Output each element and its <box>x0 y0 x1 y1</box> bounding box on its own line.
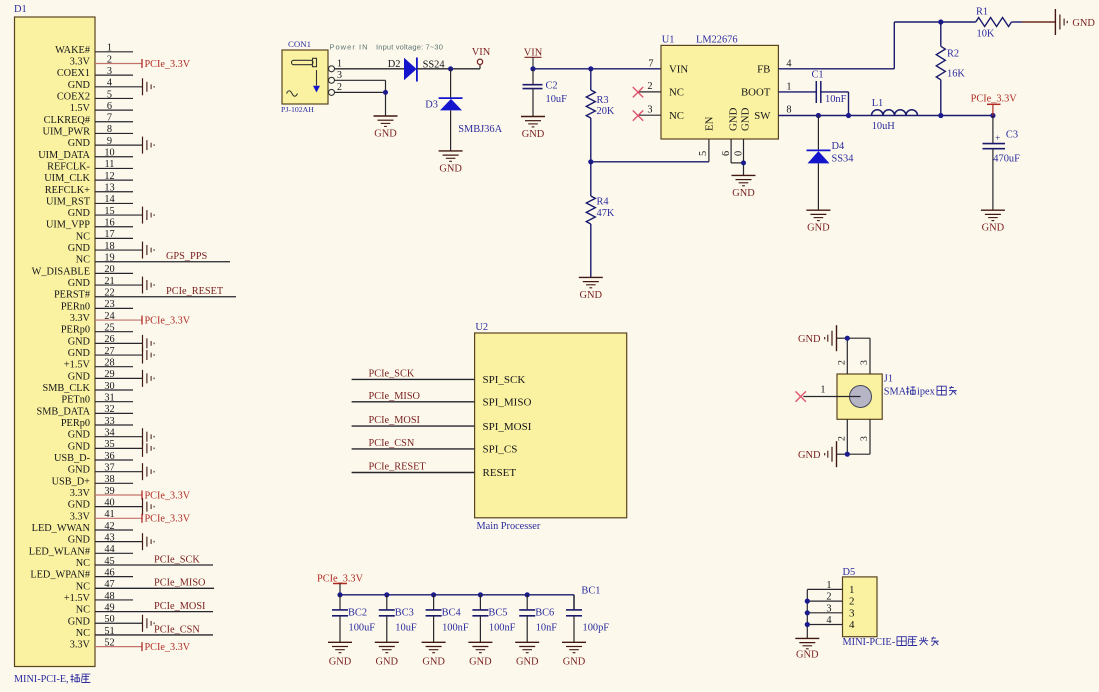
capacitor BC3 value 10uF <box>395 622 417 633</box>
svg-text:GND: GND <box>732 188 755 199</box>
pin 1 (WAKE#) of connector D1 <box>55 43 133 56</box>
net label PCIe_SCK <box>369 368 415 379</box>
U1 pin GND label (rotated, pin6) <box>728 107 740 131</box>
resistor R1 value 10K <box>977 28 995 39</box>
capacitor BC5 <box>472 595 488 643</box>
svg-text:470uF: 470uF <box>993 153 1020 164</box>
capacitor BC3 designator <box>395 607 414 618</box>
svg-text:GND: GND <box>469 656 492 667</box>
svg-text:REFCLK+: REFCLK+ <box>45 185 90 196</box>
svg-text:3: 3 <box>647 105 652 116</box>
svg-text:PCIe_MOSI: PCIe_MOSI <box>369 415 421 426</box>
svg-text:BC6: BC6 <box>535 607 554 618</box>
svg-text:U2: U2 <box>475 322 488 333</box>
capacitor C1 designator <box>812 70 824 81</box>
regulator U1 designator <box>662 35 675 46</box>
svg-text:SPI_SCK: SPI_SCK <box>483 374 526 386</box>
svg-text:NC: NC <box>76 558 90 569</box>
regulator U1 body <box>661 45 778 139</box>
pin 26 (GND) of connector D1 <box>68 334 143 347</box>
svg-text:VIN: VIN <box>669 63 688 75</box>
pin 51 (NC) of connector D1 <box>76 626 213 639</box>
J1 top pin 3 <box>859 338 870 374</box>
pin 30 (SMB_CLK) of connector D1 <box>43 381 134 394</box>
svg-text:5: 5 <box>698 151 709 156</box>
pin 33 (PERp0) of connector D1 <box>61 416 133 429</box>
power port PCIe_3.3V (bypass rail) <box>317 573 364 595</box>
svg-text:GND: GND <box>68 243 91 254</box>
svg-text:RESET: RESET <box>483 467 517 479</box>
svg-text:NC: NC <box>76 255 90 266</box>
svg-text:GND: GND <box>376 656 399 667</box>
U1 pin 6 number (rotated) <box>721 151 732 156</box>
svg-text:1: 1 <box>820 384 825 395</box>
pin 46 (LED_WPAN#) of connector D1 <box>30 567 133 580</box>
svg-text:WAKE#: WAKE# <box>55 45 90 56</box>
connector J1 designator <box>884 374 893 385</box>
diode D4 value SS34 <box>832 153 855 164</box>
junction D5 bus <box>805 622 810 627</box>
svg-text:UIM_CLK: UIM_CLK <box>44 173 90 184</box>
U1 pin FB label <box>757 58 791 75</box>
pin 19 (NC) of connector D1 <box>76 253 230 266</box>
capacitor BC6 <box>519 595 535 643</box>
pin 44 (LED_WLAN#) of connector D1 <box>29 544 133 557</box>
connector D1 caption MINI-PCI-E socket <box>14 674 90 685</box>
CON1 pin 2 circle <box>329 82 343 96</box>
pin 36 (USB_D-) of connector D1 <box>54 451 133 464</box>
pin 7 (CLKREQ#) of connector D1 <box>44 113 133 126</box>
svg-text:GPS_PPS: GPS_PPS <box>166 251 207 262</box>
diode D2 value SS24 <box>423 59 446 70</box>
wire PCIe_RESET to U2 <box>352 472 475 474</box>
pin 2 (3.3V) of connector D1 <box>70 54 142 67</box>
svg-text:BC5: BC5 <box>488 607 507 618</box>
svg-text:UIM_RST: UIM_RST <box>46 196 91 207</box>
svg-text:PJ-102AH: PJ-102AH <box>281 105 314 114</box>
svg-text:SW: SW <box>754 110 771 122</box>
svg-text:SMA: SMA <box>884 387 907 398</box>
pin 21 (GND) of connector D1 <box>68 276 143 289</box>
inductor L1 designator <box>872 98 884 109</box>
svg-text:LED_WWAN: LED_WWAN <box>32 523 91 534</box>
net label PCIe_SCK (D1 pin 45) <box>154 554 200 565</box>
capacitor BC5 designator <box>488 607 507 618</box>
svg-text:10uF: 10uF <box>395 622 417 633</box>
svg-text:100nF: 100nF <box>442 622 469 633</box>
power port PCIe_3.3V (D1 pin 39) <box>142 490 191 501</box>
junction at C2 <box>530 66 535 71</box>
pin 37 (GND) of connector D1 <box>68 462 143 475</box>
svg-text:GND: GND <box>522 129 545 140</box>
svg-text:GND: GND <box>68 500 91 511</box>
J1 top pin 2 <box>837 338 848 374</box>
annotation Power IN <box>329 43 368 52</box>
svg-text:W_DISABLE: W_DISABLE <box>32 266 90 277</box>
junction rail at BC4 <box>431 592 436 597</box>
svg-text:1: 1 <box>849 584 855 596</box>
pin 11 (REFCLK-) of connector D1 <box>47 159 133 172</box>
J1 bottom pin 2 <box>837 419 848 454</box>
D5 pin 2 <box>807 592 854 608</box>
ground (D1 pin 15) <box>143 207 155 224</box>
svg-text:UIM_DATA: UIM_DATA <box>38 150 90 161</box>
pin 40 (GND) of connector D1 <box>68 497 143 510</box>
U1 pin VIN label <box>669 63 688 75</box>
power port PCIe_3.3V (D1 pin 24) <box>142 315 191 326</box>
U1 pin NC (3) <box>637 105 684 122</box>
pin 50 (GND) of connector D1 <box>68 614 143 627</box>
CON1 pin 1 circle <box>329 58 343 72</box>
diode D2 designator <box>388 59 401 70</box>
pin 8 (UIM_PWR) of connector D1 <box>43 124 133 137</box>
svg-text:PERp0: PERp0 <box>61 418 90 429</box>
ground (CON1) <box>374 116 398 140</box>
svg-text:+1.5V: +1.5V <box>64 360 91 371</box>
pin 20 (W_DISABLE) of connector D1 <box>32 264 133 277</box>
svg-text:GND: GND <box>68 371 91 382</box>
svg-text:0: 0 <box>734 151 745 156</box>
svg-text:GND: GND <box>68 616 91 627</box>
svg-text:SPI_MOSI: SPI_MOSI <box>483 421 532 433</box>
wire PCIe_CSN to U2 <box>352 448 475 450</box>
svg-text:USB_D-: USB_D- <box>54 453 91 464</box>
power port PCIe_3.3V (D1 pin 2) <box>142 59 191 70</box>
pin 43 (GND) of connector D1 <box>68 532 143 545</box>
svg-text:Input voltage: 7~30: Input voltage: 7~30 <box>376 43 443 52</box>
pin 17 (NC) of connector D1 <box>76 229 133 242</box>
ground (D1 pin 26) <box>143 335 155 352</box>
ground (D1 pin 34) <box>143 428 155 445</box>
wire D4 anode to ground <box>817 163 819 210</box>
diode D3 designator <box>425 100 438 111</box>
net label PCIe_CSN <box>369 438 415 449</box>
svg-text:D2: D2 <box>388 59 401 70</box>
no-connect X (pin 2) <box>633 87 643 97</box>
ground (BC5) <box>468 642 492 667</box>
svg-text:2: 2 <box>337 82 342 93</box>
svg-text:8: 8 <box>786 104 791 115</box>
wire FB to feedback node <box>778 22 975 69</box>
svg-text:PCIe_MISO: PCIe_MISO <box>154 578 206 589</box>
svg-text:SS34: SS34 <box>832 153 855 164</box>
pin 52 (3.3V) of connector D1 <box>70 637 142 650</box>
svg-text:PCIe_3.3V: PCIe_3.3V <box>145 315 191 326</box>
wire PCIe_SCK to U2 <box>352 378 475 380</box>
svg-text:1: 1 <box>786 82 791 93</box>
resistor R2 designator <box>947 49 959 60</box>
svg-text:C3: C3 <box>1006 129 1018 140</box>
svg-text:D3: D3 <box>425 100 438 111</box>
svg-text:PCIe_SCK: PCIe_SCK <box>154 554 200 565</box>
pin 45 (NC) of connector D1 <box>76 556 213 569</box>
svg-text:GND: GND <box>374 129 397 140</box>
processor U2 caption Main Processer <box>477 521 541 532</box>
junction rail at BC3 <box>384 592 389 597</box>
U1 pin GND label (rotated, pin0) <box>740 107 752 131</box>
svg-text:PERST#: PERST# <box>54 290 90 301</box>
resistor R1 <box>976 18 1012 27</box>
svg-text:PCIe_3.3V: PCIe_3.3V <box>145 642 191 653</box>
svg-text:GND: GND <box>422 656 445 667</box>
svg-text:16K: 16K <box>947 69 965 80</box>
resistor R1 designator <box>976 7 988 18</box>
svg-text:R4: R4 <box>597 197 610 208</box>
svg-text:R1: R1 <box>976 7 988 18</box>
J1 bottom pin 3 <box>859 419 870 454</box>
pin 42 (LED_WWAN) of connector D1 <box>32 521 133 534</box>
capacitor BC5 value 100nF <box>489 622 516 633</box>
svg-text:BC2: BC2 <box>348 607 367 618</box>
diode D3 value SMBJ36A <box>458 124 502 135</box>
svg-text:10nF: 10nF <box>536 622 558 633</box>
svg-text:GND: GND <box>68 336 91 347</box>
resistor R4 value 47K <box>597 208 615 219</box>
connector J1 caption SMA to ipex cable <box>884 386 957 397</box>
U1 pin NC (2) <box>637 81 684 98</box>
svg-text:MINI-PCI-E,: MINI-PCI-E, <box>14 674 69 685</box>
svg-text:GND: GND <box>563 656 586 667</box>
svg-text:PCIe_RESET: PCIe_RESET <box>369 462 427 473</box>
capacitor BC1 value 100pF <box>583 622 610 633</box>
svg-text:3: 3 <box>337 70 342 81</box>
wire U1 BOOT to C1 <box>778 91 816 93</box>
svg-text:BC1: BC1 <box>581 586 600 597</box>
svg-text:SPI_CS: SPI_CS <box>483 444 518 456</box>
svg-text:GND: GND <box>807 223 830 234</box>
wire CON1 pin1 to D2 anode <box>335 68 405 70</box>
svg-text:PCIe_3.3V: PCIe_3.3V <box>145 59 191 70</box>
pin 15 (GND) of connector D1 <box>68 206 143 219</box>
ground (D1 pin 35) <box>143 440 155 457</box>
ground (C2) <box>521 117 545 141</box>
pin 22 (PERST#) of connector D1 <box>54 288 236 301</box>
svg-text:BC4: BC4 <box>442 607 462 618</box>
capacitor BC4 value 100nF <box>442 622 469 633</box>
ground (BC6) <box>515 642 539 667</box>
capacitor C3 (polarized) <box>983 116 1006 211</box>
U2 pin SPI_CS <box>483 444 518 456</box>
junction feedback node <box>938 19 943 24</box>
pin 6 (1.5V) of connector D1 <box>70 101 133 114</box>
ground (D1 pin 37) <box>143 463 155 480</box>
pin 16 (UIM_VPP) of connector D1 <box>46 218 133 231</box>
svg-text:FB: FB <box>757 63 770 75</box>
svg-text:NC: NC <box>76 231 90 242</box>
capacitor BC4 <box>426 595 442 643</box>
junction at R3 <box>588 66 593 71</box>
U1 pin 5 number (rotated) <box>698 151 709 156</box>
svg-text:LED_WLAN#: LED_WLAN# <box>29 546 90 557</box>
svg-text:100pF: 100pF <box>583 622 610 633</box>
svg-text:GND: GND <box>68 441 91 452</box>
svg-text:GND: GND <box>798 450 821 461</box>
svg-text:EN: EN <box>704 116 716 131</box>
svg-text:NC: NC <box>669 110 684 122</box>
svg-text:VIN: VIN <box>472 47 491 58</box>
pin 35 (GND) of connector D1 <box>68 439 143 452</box>
net label VIN <box>524 47 543 68</box>
wire R1 to ground <box>1012 21 1056 23</box>
diode D2 (series schottky) <box>404 58 417 82</box>
svg-text:LM22676: LM22676 <box>696 35 738 46</box>
ground (D1 pin 40) <box>143 498 155 515</box>
svg-text:CON1: CON1 <box>288 39 311 49</box>
connector CON1 body (PJ-102AH barrel jack) <box>282 50 328 104</box>
ground (D1 pin 9) <box>143 137 155 154</box>
svg-text:PCIe_3.3V: PCIe_3.3V <box>971 93 1018 104</box>
resistor R3 designator <box>597 95 609 106</box>
svg-text:REFCLK-: REFCLK- <box>47 161 90 172</box>
pin 29 (GND) of connector D1 <box>68 369 143 382</box>
pin 4 (GND) of connector D1 <box>68 78 143 91</box>
svg-text:100nF: 100nF <box>489 622 516 633</box>
wire C1 to SW node <box>821 92 849 116</box>
junction rail at BC6 <box>525 592 530 597</box>
svg-text:PCIe_CSN: PCIe_CSN <box>369 438 415 449</box>
svg-text:GND: GND <box>68 80 91 91</box>
svg-text:GND: GND <box>68 278 91 289</box>
svg-text:GND: GND <box>798 334 821 345</box>
wire PCIe_MOSI to U2 <box>352 425 475 427</box>
svg-text:GND: GND <box>740 107 752 131</box>
svg-text:GND: GND <box>68 430 91 441</box>
capacitor BC4 designator <box>442 607 462 618</box>
svg-text:ipex: ipex <box>917 387 936 398</box>
svg-text:BOOT: BOOT <box>741 87 771 99</box>
pin 24 (3.3V) of connector D1 <box>70 311 142 324</box>
pin 3 (COEX1) of connector D1 <box>57 66 133 79</box>
svg-text:3: 3 <box>859 436 870 441</box>
pin 12 (UIM_CLK) of connector D1 <box>44 171 133 184</box>
ground (U1) <box>732 175 756 199</box>
diode D4 (SS34 catch diode) <box>807 116 831 164</box>
diode D4 designator <box>832 141 846 152</box>
resistor R2 value 16K <box>947 69 965 80</box>
junction D5 bus <box>805 599 810 604</box>
junction SW at R2 <box>938 113 943 118</box>
net label PCIe_MOSI <box>369 415 421 426</box>
junction CON1 pin2/pin3 <box>383 90 388 95</box>
svg-text:L1: L1 <box>872 98 884 109</box>
svg-text:3.3V: 3.3V <box>70 640 91 651</box>
resistor R3 value 20K <box>597 106 615 117</box>
capacitor BC1 designator <box>581 586 600 597</box>
ground (D1 pin 18) <box>143 242 155 259</box>
svg-text:D1: D1 <box>14 4 27 15</box>
svg-text:PCIe_CSN: PCIe_CSN <box>154 624 200 635</box>
svg-text:1: 1 <box>337 58 342 69</box>
junction J1 top <box>845 336 850 341</box>
net label PCIe_RESET (D1 pin 22) <box>166 286 224 297</box>
wire bypass rail <box>340 595 574 610</box>
ground (D1 pin 29) <box>143 370 155 387</box>
ground (BC2) <box>328 642 352 667</box>
svg-text:3.3V: 3.3V <box>70 488 91 499</box>
wire CON1 pin3 down to pin2 <box>385 80 387 116</box>
svg-text:SMB_DATA: SMB_DATA <box>36 406 90 417</box>
pin 34 (GND) of connector D1 <box>68 427 143 440</box>
svg-text:PERp0: PERp0 <box>61 325 90 336</box>
inductor L1 <box>872 110 918 116</box>
svg-text:COEX1: COEX1 <box>57 68 90 79</box>
diode D3 (TVS) <box>439 98 463 110</box>
svg-text:10nF: 10nF <box>825 94 847 105</box>
pin 49 (NC) of connector D1 <box>76 602 213 615</box>
svg-text:PERn0: PERn0 <box>61 301 90 312</box>
svg-text:10K: 10K <box>977 28 995 39</box>
U2 pin SPI_MOSI <box>483 421 532 433</box>
no-connect X (J1 pin 1) <box>796 391 806 401</box>
no-connect X (pin 3) <box>633 110 643 120</box>
svg-text:PCIe_3.3V: PCIe_3.3V <box>145 514 191 525</box>
svg-text:NC: NC <box>76 581 90 592</box>
wire CON1 pin3 <box>335 79 386 81</box>
ground (D1 pin 27) <box>143 347 155 364</box>
svg-text:UIM_PWR: UIM_PWR <box>43 126 91 137</box>
wire CON1 pin2 <box>335 91 386 93</box>
svg-text:GND: GND <box>68 348 91 359</box>
pin 27 (GND) of connector D1 <box>68 346 143 359</box>
wire U1 GND pin0 <box>743 139 745 175</box>
connector D1 body <box>15 17 96 667</box>
svg-text:SPI_MISO: SPI_MISO <box>483 397 532 409</box>
ground (J1 top, left facing) <box>798 325 837 351</box>
net label PCIe_CSN (D1 pin 51) <box>154 624 200 635</box>
svg-text:UIM_VPP: UIM_VPP <box>46 220 90 231</box>
port VIN (circle) <box>472 47 491 69</box>
ground (D1 pin 4) <box>143 78 155 95</box>
capacitor BC3 <box>379 595 395 643</box>
D5 pin 3 <box>807 603 855 619</box>
ground (D1 pin 43) <box>143 533 155 550</box>
connector D1 designator <box>14 4 27 15</box>
U1 pin BOOT label <box>741 82 792 99</box>
pin 25 (PERp0) of connector D1 <box>61 323 133 336</box>
svg-text:Power IN: Power IN <box>329 43 368 52</box>
svg-text:GND: GND <box>68 535 91 546</box>
svg-text:PETn0: PETn0 <box>61 395 90 406</box>
svg-text:3: 3 <box>849 607 855 619</box>
svg-text:+: + <box>995 133 1000 143</box>
pin 23 (PERn0) of connector D1 <box>61 299 133 312</box>
pin 10 (UIM_DATA) of connector D1 <box>38 148 133 161</box>
U1 pin EN label (rotated) <box>704 116 716 131</box>
wire VIN to U1 VIN pin <box>533 68 661 70</box>
pin 41 (3.3V) of connector D1 <box>70 509 142 522</box>
processor U2 designator <box>475 322 488 333</box>
net label PCIe_MISO (D1 pin 47) <box>154 578 206 589</box>
svg-text:CLKREQ#: CLKREQ# <box>44 115 90 126</box>
ground (R1, right facing) <box>1055 9 1095 35</box>
CON1 pin 3 circle <box>329 70 343 84</box>
svg-text:10uF: 10uF <box>546 94 568 105</box>
junction R3/R4/EN <box>588 159 593 164</box>
regulator U1 part number LM22676 <box>696 35 738 46</box>
resistor R4 designator <box>597 197 610 208</box>
svg-text:USB_D+: USB_D+ <box>52 476 91 487</box>
svg-text:PCIe_3.3V: PCIe_3.3V <box>317 573 364 584</box>
pin 48 (+1.5V) of connector D1 <box>64 591 133 604</box>
svg-text:GND: GND <box>516 656 539 667</box>
ground (D4) <box>806 210 830 234</box>
svg-text:D4: D4 <box>832 141 846 152</box>
svg-text:4: 4 <box>849 619 855 631</box>
wire divider to U1 EN pin <box>591 139 709 162</box>
svg-text:2: 2 <box>849 596 855 608</box>
svg-text:PCIe_MISO: PCIe_MISO <box>369 391 421 402</box>
ground (D1 pin 50) <box>143 615 155 632</box>
